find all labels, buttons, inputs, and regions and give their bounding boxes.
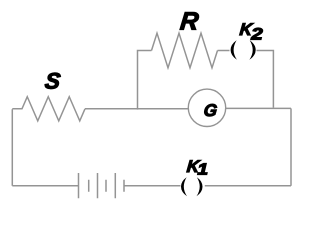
wire key K1 to bottom right corner: [205, 185, 291, 187]
key K2 contact (: [231, 40, 237, 60]
wire bottom left to battery: [12, 185, 78, 187]
wire right to galvanometer: [226, 107, 291, 109]
label K2: [239, 20, 255, 39]
svg-text:2: 2: [250, 24, 263, 43]
galvanometer G circle: [188, 89, 225, 126]
wire R to key K2: [218, 50, 230, 52]
label K1: [186, 157, 202, 176]
wire left border: [11, 109, 13, 186]
wire key K2 to top right corner and down to node B: [257, 51, 274, 108]
battery B1 short plates: [89, 180, 124, 192]
label G: [203, 101, 218, 120]
resistor S zigzag: [12, 97, 85, 121]
svg-text:1: 1: [197, 160, 208, 178]
battery B1 plates: [79, 173, 116, 198]
resistor R zigzag: [152, 33, 218, 68]
wire right border: [290, 108, 292, 185]
label R: [179, 7, 200, 35]
wire battery to key K1: [124, 185, 181, 187]
svg-text:R: R: [179, 7, 200, 35]
svg-text:S: S: [44, 69, 62, 94]
label S: [44, 69, 62, 94]
svg-text:G: G: [203, 101, 218, 120]
key K2 contact ): [249, 40, 255, 60]
key K1 contact (: [181, 177, 187, 196]
key K1 contact ): [197, 177, 203, 196]
wire galvanometer to junction A and S resistor: [85, 108, 188, 110]
wire junction A vertical to top branch: [138, 51, 152, 110]
